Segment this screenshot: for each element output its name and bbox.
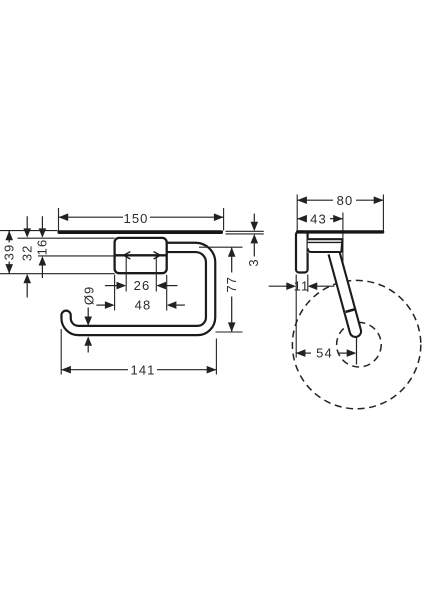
holder body (side view) white fill <box>308 238 342 253</box>
dim 43: right extension line <box>342 213 344 299</box>
dim 141: right arrow <box>207 366 217 374</box>
dim 39: bottom arrow <box>5 264 13 274</box>
dim 150: left arrow <box>59 213 69 221</box>
shelf (front view, dark bar) <box>58 230 224 234</box>
dim 48: left arrow <box>105 301 115 309</box>
wire: extension line A (shelf top level, to left edge) <box>0 230 58 232</box>
dim 54: right arrow <box>347 349 357 357</box>
dim 43: right arrow <box>333 215 343 223</box>
dim 141: dimension line <box>61 369 128 371</box>
dim 54: left arrow <box>296 349 306 357</box>
dim 80: left arrow <box>297 196 307 204</box>
dim 11: right arrow and leader <box>308 282 318 290</box>
wire: left extension line (wall line) <box>295 275 297 358</box>
svg-text:43: 43 <box>310 211 327 226</box>
dim 16: top leader and arrow <box>41 216 43 230</box>
svg-text:39: 39 <box>2 244 17 261</box>
dim 77: bottom arrow <box>228 322 236 332</box>
dim Ø9: bottom arrow and leader <box>84 336 92 345</box>
dim 80: extension lines <box>296 195 298 231</box>
svg-text:150: 150 <box>124 211 149 226</box>
svg-text:26: 26 <box>134 278 151 293</box>
wire: extension line C (plate divider level) <box>38 255 115 257</box>
wire: plate right extension line <box>307 275 309 292</box>
dim 48: lines <box>96 304 105 306</box>
dim 80: right arrow <box>374 196 384 204</box>
dim Ø9: top leader and arrow <box>87 308 89 318</box>
svg-text:32: 32 <box>19 244 34 261</box>
svg-text:Ø9: Ø9 <box>81 286 96 306</box>
roll outline: large dashed circle <box>292 280 420 408</box>
dim 32: bottom leader and arrow <box>23 274 31 283</box>
wire: roll axis line <box>356 337 358 365</box>
dim 43: left arrow <box>297 215 307 223</box>
roll core: small dashed circle <box>337 322 382 367</box>
dim 43: dimension line <box>297 218 306 220</box>
holder body bottom lip <box>308 248 342 252</box>
dim 141: left arrow <box>61 366 71 374</box>
holder body under line <box>308 241 342 243</box>
mounting plate (front view) <box>115 238 167 273</box>
chevron arrow right on divider <box>154 252 161 259</box>
dim 3: extension lines <box>226 230 264 232</box>
dim 16: bottom leader and arrow <box>39 256 47 265</box>
paper roll bar (front view) <box>66 247 211 330</box>
wire: extension line D (39 bottom level) <box>0 273 115 275</box>
dim 77: top arrow <box>228 247 236 257</box>
wire: extension line B (plate top level) <box>18 237 115 239</box>
dim 80: dimension line <box>297 199 333 201</box>
dim 48: right arrow <box>167 301 177 309</box>
svg-text:77: 77 <box>224 276 239 293</box>
chevron arrow left on divider <box>124 252 131 259</box>
svg-text:48: 48 <box>135 298 152 313</box>
dim 3: bottom arrow and leader <box>251 234 259 243</box>
svg-text:3: 3 <box>246 258 261 266</box>
dim 39: dimension line <box>8 231 10 243</box>
svg-text:54: 54 <box>316 346 333 361</box>
dim 150: extension lines <box>58 208 60 231</box>
wire: screw extension lines <box>125 257 127 292</box>
tick on arm <box>346 309 355 312</box>
dim 77: extension lines <box>199 246 243 248</box>
wall plate (side view) <box>296 232 308 273</box>
wire: plate edge extension lines <box>114 275 116 311</box>
dim 54: dimension line <box>296 352 311 354</box>
holder arm (side view) <box>329 251 361 337</box>
dim 26: right arrow <box>156 282 166 290</box>
svg-text:16: 16 <box>35 239 50 256</box>
dim 11: left leader and arrow <box>269 285 287 287</box>
dim 39: top arrow <box>5 231 13 241</box>
dim 141: extension lines <box>60 329 62 375</box>
dim 77: dimension line <box>231 247 233 272</box>
holder body top line <box>308 238 343 240</box>
dim 150: dimension line <box>59 216 124 218</box>
dim 3: top leader and arrow <box>253 214 255 223</box>
holder body right edge <box>341 239 342 253</box>
dim 150: right arrow <box>214 213 224 221</box>
dim 32: top leader and arrow <box>26 216 28 230</box>
svg-text:80: 80 <box>337 193 354 208</box>
dim 26: lines <box>105 285 117 287</box>
plate divider line <box>115 254 167 256</box>
shelf (side view, dark bar) <box>296 230 384 233</box>
svg-text:141: 141 <box>131 362 156 377</box>
dim 26: left arrow <box>117 282 127 290</box>
